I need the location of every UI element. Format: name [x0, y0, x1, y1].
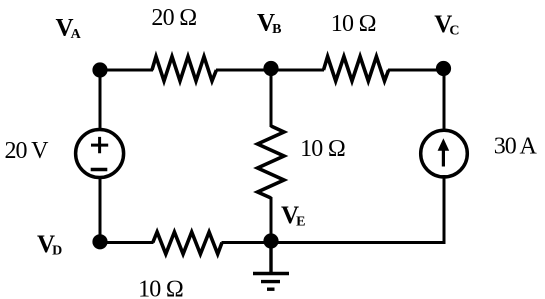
current source arrow shaft — [442, 149, 445, 167]
resistor R4 10 ohm bottom — [153, 232, 222, 254]
svg-text:10 Ω: 10 Ω — [331, 11, 376, 37]
wire voltage source to VD — [99, 176, 102, 243]
ground bar 2 — [261, 280, 280, 283]
ground bar 3 — [267, 288, 275, 291]
wire VC down to current source — [443, 70, 446, 132]
node VE — [263, 233, 278, 248]
svg-text:10 Ω: 10 Ω — [138, 276, 183, 299]
voltage source V1 circle — [76, 130, 124, 178]
current source arrow head — [438, 138, 450, 151]
node VB — [263, 61, 278, 76]
wire VB to R2 — [271, 69, 324, 72]
resistor R3 10 ohm middle — [258, 126, 285, 198]
node VD — [92, 234, 107, 249]
svg-text:10 Ω: 10 Ω — [300, 136, 345, 162]
wire top rail VA to R1 — [100, 69, 153, 72]
wire current source to bottom rail — [443, 175, 446, 244]
voltage source plus sign — [91, 137, 108, 153]
resistor R1 20 ohm — [152, 57, 216, 82]
node VC — [436, 61, 451, 76]
wire VA down to voltage source — [99, 70, 102, 131]
wire R2 to VC — [388, 69, 444, 72]
wire VB down to R3 — [270, 70, 273, 127]
ground stem — [269, 243, 272, 274]
resistor R2 10 ohm — [324, 57, 389, 82]
wire R1 to VB — [216, 69, 271, 72]
wire R3 to VE — [270, 197, 273, 243]
ground bar 1 — [253, 272, 289, 275]
svg-text:20 Ω: 20 Ω — [151, 5, 196, 31]
svg-text:20 V: 20 V — [5, 138, 50, 164]
wire VD to R4 — [100, 241, 154, 244]
wire bottom rail VE to current source branch — [271, 241, 446, 244]
current source I1 circle — [421, 130, 468, 177]
voltage source minus sign — [91, 168, 108, 171]
svg-text:30 A: 30 A — [494, 134, 538, 160]
node VA — [92, 62, 107, 77]
wire R4 to VE — [222, 241, 272, 244]
